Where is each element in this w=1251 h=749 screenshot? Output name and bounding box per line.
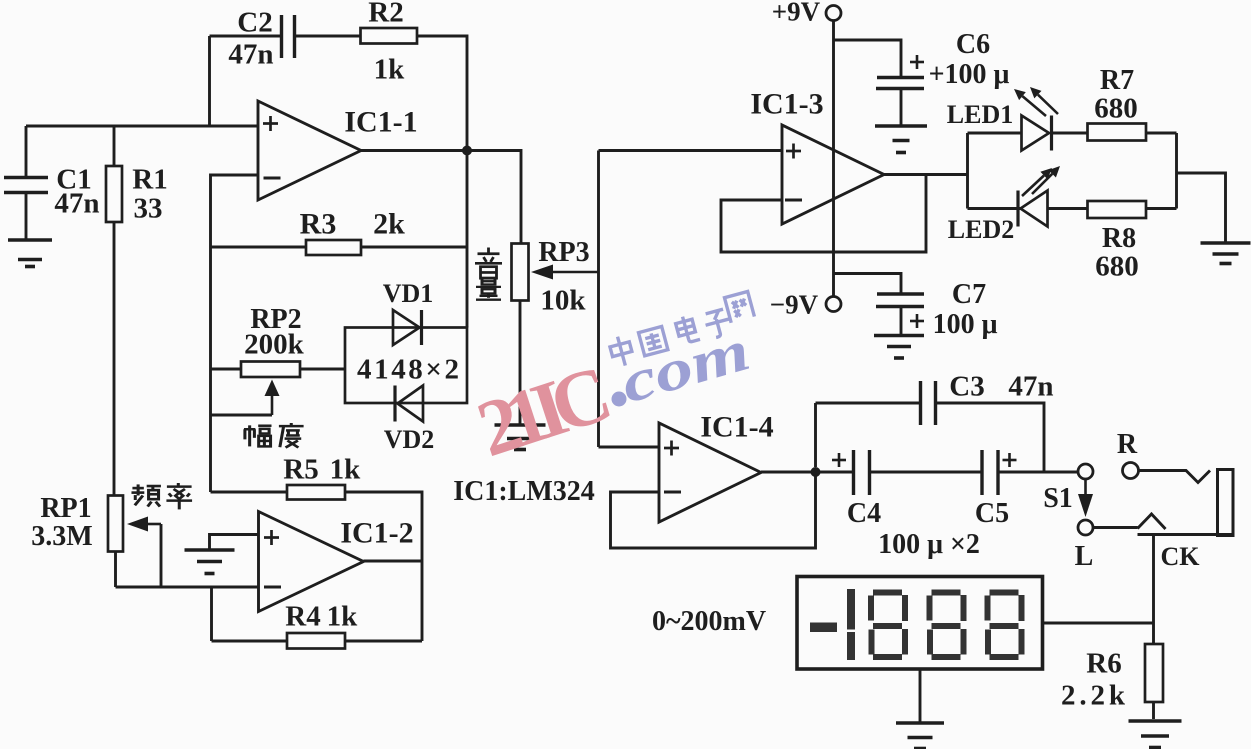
wire [212,640,288,643]
ground [185,550,235,574]
wire [113,126,116,166]
svg-text:+100 μ: +100 μ [929,59,1010,90]
svg-text:R5: R5 [283,453,318,485]
svg-text:C5: C5 [975,498,1009,529]
potentiometer RP1 [108,496,123,552]
wire [210,35,282,38]
label 音 (volume) [475,248,502,279]
wire [599,149,783,152]
wire [966,133,969,209]
label 3.3M [31,521,92,552]
label C5 [975,498,1009,529]
wire [1152,702,1155,719]
svg-text:2.2k: 2.2k [1061,679,1126,711]
svg-text:1k: 1k [374,53,406,85]
terminal S1 [1078,464,1093,479]
resistor R6 [1145,644,1163,702]
op-amp U2 IC1-2 [259,512,364,612]
svg-text:R8: R8 [1102,223,1136,254]
op-amp U3 IC1-3 [782,125,884,224]
LED LED2 [1018,166,1060,227]
svg-text:680: 680 [1094,92,1138,124]
display digit 8 [985,590,1025,661]
svg-text:1k: 1k [327,600,359,632]
wire [211,414,273,417]
display digit 1 [847,589,855,660]
svg-text:CK: CK [1161,542,1201,571]
svg-text:R4: R4 [285,600,320,632]
label 1k [374,53,406,85]
potentiometer RP2 [241,362,300,378]
wire [834,40,902,77]
label 200k [244,328,305,360]
svg-text:IC1:LM324: IC1:LM324 [453,476,595,507]
RP1 wiper arrow [127,517,161,532]
ground [896,723,944,749]
ground [1129,721,1182,748]
RP3 wiper arrow [531,265,599,280]
wire [211,246,307,249]
resistor R1 [106,166,122,222]
potentiometer RP3 [512,244,529,301]
wire [936,403,1045,471]
jack plug CK [1218,470,1234,536]
node A [462,146,472,156]
svg-text:100 μ: 100 μ [933,309,998,340]
svg-text:R7: R7 [1100,65,1134,96]
label 1k [330,453,362,485]
svg-text:IC1-3: IC1-3 [750,88,823,121]
diode VD1 [393,310,422,345]
wire [721,175,926,253]
op-amp U4 IC1-4 [659,423,761,522]
label 100 μ ×2 [878,529,980,560]
ground [1201,243,1251,264]
wire [25,126,28,177]
label R6 [1086,647,1121,679]
wire [1053,132,1088,135]
diode VD2 [395,386,423,422]
svg-text:C4: C4 [847,498,881,529]
wire [1177,173,1226,242]
label 47n [228,38,273,70]
label 度 (amplitude) [279,423,304,448]
wire [919,669,922,722]
wire [26,125,258,128]
terminal -9V [826,297,841,312]
label 47n [54,187,99,219]
label −9V [770,290,819,320]
wire [900,90,903,125]
wire [25,193,28,240]
wire [1139,471,1210,483]
capacitor C5 [982,450,1017,495]
svg-text:C2: C2 [237,6,272,38]
wire [417,36,467,328]
label L [1075,541,1094,572]
wire [345,492,422,641]
capacitor C6 [876,55,924,89]
svg-text:VD2: VD2 [384,425,435,454]
op-amp U1 IC1-1 [258,101,361,200]
wire [1048,207,1088,210]
label VD2 [384,425,435,454]
capacitor C7 [876,294,924,328]
RP2 wiper arrow [265,380,280,416]
label S1 [1043,483,1073,514]
svg-text:33: 33 [134,192,163,224]
wire [999,471,1078,474]
resistor R5 [287,485,345,500]
svg-text:10k: 10k [540,284,586,316]
label 幅 (amplitude) [244,425,272,446]
svg-text:0~200mV: 0~200mV [652,606,766,637]
ground [874,336,924,359]
jack contact [1138,514,1166,529]
svg-text:100 μ ×2: 100 μ ×2 [878,529,980,560]
svg-text:R6: R6 [1086,647,1121,679]
svg-text:−9V: −9V [770,290,819,320]
label VD1 [383,279,434,308]
label R [1117,429,1138,460]
label 2k [373,208,405,241]
label C3 [949,370,984,402]
display minus sign [810,623,837,633]
label C4 [847,498,881,529]
label 1k [327,600,359,632]
svg-text:LED1: LED1 [947,100,1013,129]
capacitor C4 [832,450,870,495]
label C6 [956,29,990,60]
svg-text:200k: 200k [244,328,305,360]
label 量 (volume) [476,278,501,300]
wire [113,222,116,496]
label IC1-3 [750,88,823,121]
ground [495,425,546,450]
display panel [797,577,1043,670]
resistor R2 [361,28,418,44]
label 频 (frequency) [131,484,160,506]
label R1 [132,163,167,195]
wire [116,586,259,589]
svg-text:2k: 2k [373,208,405,241]
wire [160,524,163,587]
label R2 [368,0,403,28]
wire [295,35,361,38]
wire [361,246,467,249]
svg-text:+9V: +9V [772,0,821,27]
label 10k [540,284,586,316]
wire [1138,533,1234,536]
label R4 [285,600,320,632]
label C2 [237,6,272,38]
label 680 [1095,250,1139,282]
wire [599,446,660,449]
label RP2 [250,304,301,335]
resistor R7 [1088,124,1147,141]
svg-text:R2: R2 [368,0,403,28]
label C1 [56,163,91,195]
node B [811,467,821,477]
label R5 [283,453,318,485]
label IC1:LM324 [453,476,595,507]
diode box 4148 [345,328,467,404]
label IC1-4 [700,411,773,444]
S1 arrow [1078,480,1093,518]
wire [210,535,259,550]
label 4148×2 [357,353,459,385]
wire [364,560,423,563]
wire [114,552,117,588]
wire [832,21,835,297]
wire [814,403,817,467]
wire [1093,526,1138,529]
label R8 [1102,223,1136,254]
wire [1146,132,1177,135]
wire [968,132,1022,135]
wire [1043,622,1154,625]
ground [875,126,927,153]
svg-text:R3: R3 [300,208,337,241]
svg-text:VD1: VD1 [383,279,434,308]
svg-text:IC1-2: IC1-2 [340,517,413,550]
wire [361,151,521,244]
svg-text:47n: 47n [54,187,99,219]
svg-text:C6: C6 [956,29,990,60]
svg-text:R1: R1 [132,163,167,195]
wire [211,491,288,494]
svg-text:LED2: LED2 [948,215,1014,244]
wire [597,151,600,448]
wire [871,471,982,474]
wire [300,368,345,371]
wire [211,175,259,492]
resistor R4 [287,633,345,649]
wire [345,640,422,643]
label 47n [1008,370,1053,402]
label R7 [1100,65,1134,96]
label +9V [772,0,821,27]
wire [210,587,213,641]
svg-text:RP3: RP3 [538,237,589,268]
wire [816,402,921,405]
wire [1175,133,1178,209]
svg-text:3.3M: 3.3M [31,521,92,552]
svg-text:IC1-1: IC1-1 [344,106,417,139]
wire [211,368,242,371]
wire [968,207,1021,210]
label 100 μ [933,309,998,340]
wire [900,308,903,334]
label RP1 [40,493,91,524]
wire [611,472,816,548]
svg-text:S1: S1 [1043,483,1073,514]
wire [761,471,853,474]
label 2.2k [1061,679,1126,711]
wire [1152,535,1155,645]
resistor R8 [1088,201,1147,218]
svg-text:47n: 47n [1008,370,1053,402]
svg-text:1k: 1k [330,453,362,485]
label LED1 [947,100,1013,129]
capacitor C3 [921,381,936,425]
svg-text:47n: 47n [228,38,273,70]
resistor R3 [306,240,361,255]
svg-text:IC1-4: IC1-4 [700,411,773,444]
wire [519,301,522,425]
svg-text:R: R [1117,429,1138,460]
svg-text:RP1: RP1 [40,493,91,524]
svg-text:C7: C7 [952,279,986,310]
label LED2 [948,215,1014,244]
label R3 [300,208,337,241]
label 33 [134,192,163,224]
watermark 21IC.com [467,291,756,474]
label CK [1161,542,1201,571]
wire [884,173,968,176]
svg-text:C3: C3 [949,370,984,402]
capacitor C1 [4,178,48,193]
wire [834,274,902,294]
ground [8,240,52,267]
svg-text:680: 680 [1095,250,1139,282]
capacitor C2 [282,15,295,58]
wire [1146,207,1177,210]
label IC1-1 [344,106,417,139]
label C7 [952,279,986,310]
label +100 μ [929,59,1010,90]
display digit 8 [868,590,908,661]
label RP3 [538,237,589,268]
wire [208,36,211,126]
label IC1-2 [340,517,413,550]
terminal +9V [826,6,841,21]
display digit 8 [927,590,967,661]
svg-text:L: L [1075,541,1094,572]
label 680 [1094,92,1138,124]
terminal R [1123,463,1139,479]
label 0~200mV [652,606,766,637]
label 率 (frequency) [166,483,192,509]
terminal L [1078,520,1093,535]
LED LED1 [1014,87,1058,151]
